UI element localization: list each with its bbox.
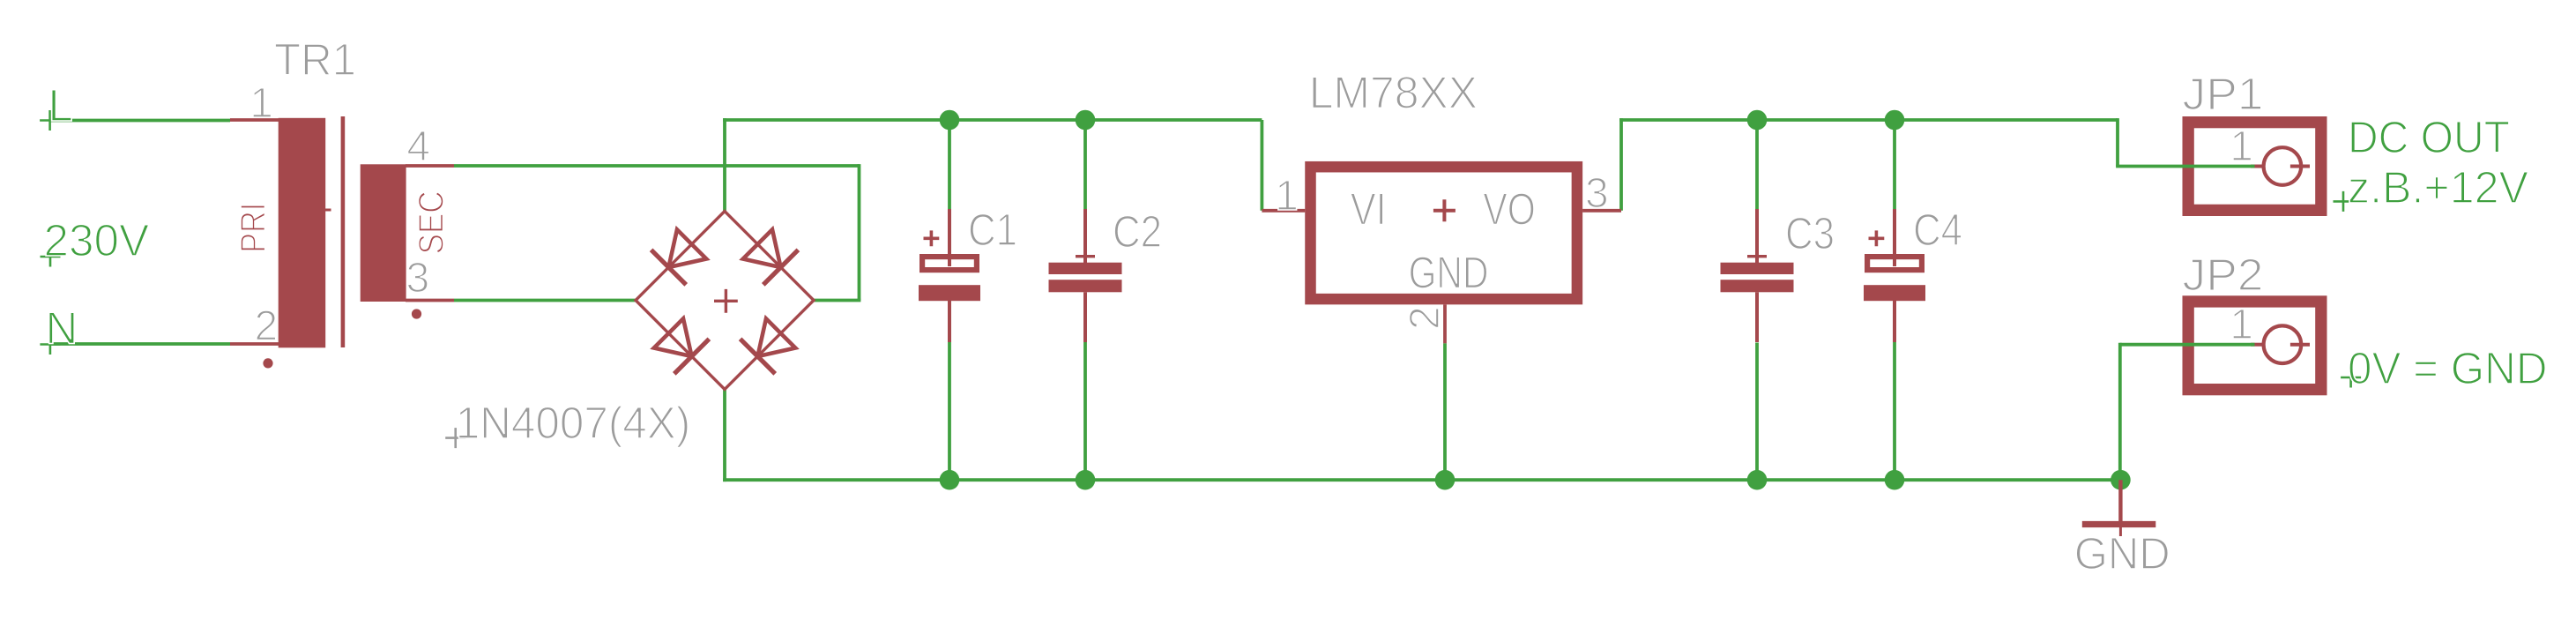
svg-text:1: 1 — [249, 80, 273, 127]
wire C4 top drop — [1893, 120, 1896, 210]
bridge diamond wiring — [636, 212, 814, 390]
svg-text:2: 2 — [255, 303, 279, 350]
svg-text:N: N — [46, 303, 78, 354]
net label L cross — [40, 110, 60, 131]
diode D3 (bottom-left, 1N4007) — [651, 316, 710, 374]
diode D1 (top-left, 1N4007) — [651, 227, 710, 285]
svg-text:z.B.+12V: z.B.+12V — [2348, 162, 2528, 213]
ground symbol — [2082, 480, 2156, 536]
wire C4 bottom drop — [1893, 341, 1896, 480]
junction bottom rail / C4 — [1885, 470, 1905, 490]
svg-text:VO: VO — [1483, 183, 1536, 234]
wire from JP2 pin 1 left — [2120, 343, 2255, 347]
junction bottom rail / GND — [2111, 470, 2131, 490]
wire bridge bottom vertex down — [723, 390, 726, 482]
svg-text:PRI: PRI — [235, 203, 273, 253]
connector JP1 — [2188, 123, 2321, 211]
wire bottom rail — [723, 478, 2120, 481]
wire net N from terminal to TR1 pin 2 — [50, 342, 230, 346]
bridge center + mark — [714, 289, 738, 313]
junction top rail / C4 — [1885, 110, 1905, 131]
junction bottom rail / C1 — [940, 470, 960, 490]
junction top rail / C2 — [1076, 110, 1096, 131]
transformer TR1 — [230, 116, 454, 369]
svg-text:JP1: JP1 — [2183, 69, 2264, 119]
junction bottom rail / U1 pin 2 — [1435, 470, 1456, 490]
net label 230V cross — [41, 247, 61, 267]
op-amp U1 LM78XX regulator box — [1262, 167, 1621, 343]
svg-text:230V: 230V — [44, 215, 150, 265]
svg-text:3: 3 — [1585, 170, 1609, 217]
svg-text:GND: GND — [1409, 248, 1489, 298]
wire JP2 corner down to ground junction — [2118, 343, 2122, 480]
wire C2 top drop — [1083, 120, 1087, 211]
junction bottom rail / C3 — [1747, 470, 1768, 490]
U1 + mark — [1433, 199, 1456, 221]
svg-text:1N4007(4X): 1N4007(4X) — [456, 398, 691, 448]
svg-text:L: L — [48, 80, 73, 131]
diode D4 (bottom-right, 1N4007) — [741, 316, 799, 374]
capacitor C3 — [1721, 209, 1794, 342]
svg-text:3: 3 — [406, 255, 430, 302]
junction bottom rail / C2 — [1076, 470, 1096, 490]
svg-text:TR1: TR1 — [274, 34, 356, 85]
svg-text:C2: C2 — [1113, 206, 1162, 257]
svg-text:1: 1 — [1275, 173, 1299, 220]
svg-text:1: 1 — [2230, 302, 2253, 348]
capacitor C2 — [1049, 209, 1122, 342]
svg-text:JP2: JP2 — [2183, 250, 2264, 300]
wire C1 top drop — [948, 120, 951, 211]
wire into bridge right vertex — [814, 299, 860, 302]
svg-text:C3: C3 — [1785, 208, 1835, 258]
svg-text:LM78XX: LM78XX — [1309, 68, 1478, 118]
capacitor C1 (polarized) — [919, 209, 980, 342]
wire TR1 sec pin 3 to bridge left vertex — [454, 299, 636, 302]
wire C3 top drop — [1755, 120, 1759, 210]
svg-text:1: 1 — [2230, 123, 2253, 170]
diode D2 (top-right, 1N4007) — [741, 227, 799, 285]
svg-text:C4: C4 — [1913, 205, 1962, 255]
wire C2 bottom drop — [1083, 342, 1087, 480]
wire up from U1 pin 3 — [1619, 118, 1623, 211]
label 0V = GND cross — [2341, 368, 2361, 388]
svg-text:4: 4 — [406, 123, 430, 170]
capacitor C4 (polarized) — [1864, 209, 1925, 342]
svg-text:C1: C1 — [968, 205, 1017, 255]
wire corner down to JP1 — [2116, 118, 2119, 166]
wire C1 bottom drop — [948, 342, 951, 480]
wire C3 bottom drop — [1755, 343, 1759, 481]
svg-text:SEC: SEC — [413, 190, 451, 254]
wire top rail right section — [1619, 118, 2118, 122]
wire U1 pin 2 drop to ground rail — [1443, 343, 1447, 480]
net label N cross — [40, 334, 60, 355]
connector JP2 — [2188, 302, 2321, 390]
wire TR1 sec pin 4 horizontal — [454, 164, 860, 168]
svg-text:VI: VI — [1351, 183, 1387, 234]
wire sec pin 4 vertical drop — [858, 164, 861, 300]
label z.B.+12V cross — [2334, 191, 2354, 212]
svg-text:2: 2 — [1402, 306, 1448, 330]
wire bridge top vertex up — [723, 118, 726, 211]
svg-text:0V = GND: 0V = GND — [2348, 343, 2548, 393]
wire net L from terminal to TR1 pin 1 — [50, 119, 230, 123]
svg-text:DC OUT: DC OUT — [2348, 112, 2510, 162]
label 1N4007(4X) cross — [445, 428, 465, 448]
junction top rail / C1 — [940, 110, 960, 131]
junction top rail / C3 — [1747, 110, 1768, 131]
wire down to U1 pin 1 — [1261, 120, 1264, 211]
wire into JP1 pin 1 — [2116, 165, 2254, 168]
wire top rail left section — [723, 118, 1262, 122]
svg-text:GND: GND — [2074, 528, 2170, 578]
